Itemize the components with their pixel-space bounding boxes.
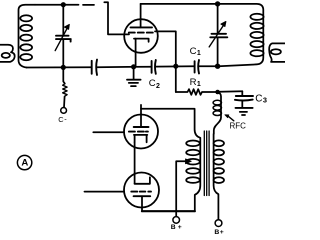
junction dot (R1 / RFC / C3) bbox=[215, 90, 220, 95]
svg-text:C-: C- bbox=[58, 114, 67, 124]
wire (V3 grid) bbox=[85, 191, 125, 193]
wire (V2 plate to transformer primary) bbox=[141, 109, 200, 212]
svg-text:B+: B+ bbox=[171, 224, 184, 231]
svg-text:RFC: RFC bbox=[230, 122, 247, 131]
wire top-left (coil top to grid, dashed scan breaks) bbox=[35, 4, 94, 6]
wire (R1 node to C3) bbox=[220, 90, 243, 92]
wire grid hook bbox=[104, 2, 129, 34]
capacitor C3 bbox=[235, 91, 253, 107]
wire (V2 grid) bbox=[93, 131, 124, 133]
junction dot (bus / V1 lead) bbox=[173, 64, 178, 69]
grid leak resistor to C- bbox=[61, 67, 67, 113]
capacitor (antenna series, unlabelled) bbox=[92, 60, 97, 75]
antenna link coil bbox=[0, 45, 15, 62]
tube V1 (detector) bbox=[124, 4, 158, 67]
circled A bbox=[17, 155, 31, 169]
tube V2 (1st AF) bbox=[124, 105, 158, 184]
svg-text:A: A bbox=[21, 158, 28, 169]
capacitor C1 bbox=[195, 60, 199, 74]
variable capacitor (right tank tuning) bbox=[209, 4, 227, 66]
junction dot (var cap / grid leak) bbox=[61, 65, 66, 70]
ground (main bus) bbox=[127, 67, 141, 86]
capacitor C2 bbox=[152, 60, 156, 74]
junction dot (top wire / var cap right) bbox=[215, 1, 220, 6]
B+ center tap feed bbox=[173, 159, 191, 223]
tube V3 (2nd AF, inverted) bbox=[124, 173, 159, 212]
tank coil (right) bbox=[219, 4, 264, 65]
RFC leader arrow bbox=[229, 117, 234, 121]
output link coil bbox=[269, 43, 285, 62]
wire (V1 grid-right to R1 junction column) bbox=[155, 31, 176, 92]
AF transformer bbox=[186, 131, 224, 220]
B+ terminal 2 (secondary) bbox=[215, 220, 222, 227]
svg-text:B+: B+ bbox=[214, 229, 224, 236]
tank coil L1 (left) bbox=[19, 5, 36, 68]
junction dot (top of C-var left) bbox=[61, 2, 66, 7]
RF choke RFC bbox=[213, 92, 221, 134]
bus wire (main horizontal) bbox=[27, 64, 257, 67]
variable capacitor (left tank tuning) bbox=[55, 5, 71, 68]
wire (V3 plate to primary bottom) bbox=[142, 210, 195, 212]
svg-text:C3: C3 bbox=[255, 93, 267, 104]
junction dot (cathode/ground) bbox=[131, 64, 136, 69]
junction dot (bus / C1 / var cap right) bbox=[215, 63, 220, 68]
resistor R1 bbox=[176, 89, 218, 95]
wire top (V1 plate to right tank) bbox=[141, 3, 219, 5]
ground (C3) bbox=[236, 108, 253, 115]
